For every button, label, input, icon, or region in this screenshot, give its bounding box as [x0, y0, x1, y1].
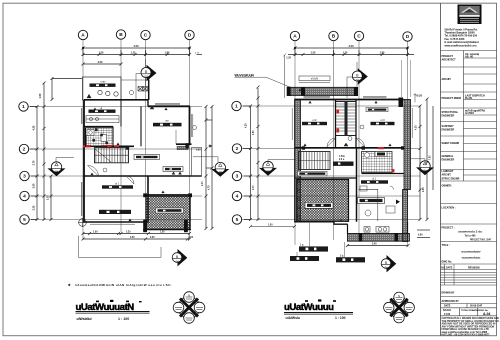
- svg-text:04: 04: [144, 75, 148, 79]
- grid line C: [145, 39, 147, 233]
- svg-text:2.50: 2.50: [98, 61, 103, 64]
- bay post 2: [395, 233, 399, 242]
- small label right of stairs: [163, 167, 183, 172]
- svg-text:ul 3: ul 3: [380, 118, 385, 122]
- column marker circle A5: [78, 218, 87, 227]
- svg-text:D: D: [406, 34, 410, 40]
- interior wall stair right: [355, 100, 357, 149]
- grid line D: [189, 39, 191, 240]
- section marker bottom B (right plan): [381, 255, 396, 272]
- svg-text:REVISION: REVISION: [468, 266, 480, 269]
- elevation marker left: [48, 158, 75, 177]
- svg-text:2.70: 2.70: [33, 160, 36, 165]
- bubble 5: [20, 215, 29, 224]
- svg-text:ARCHIT.: ARCHIT.: [442, 173, 452, 176]
- red marks on row2 wall: [83, 145, 89, 147]
- svg-text:B: B: [119, 32, 123, 38]
- svg-text:04: 04: [384, 265, 388, 269]
- svg-text:4: 4: [236, 194, 239, 200]
- svg-text:A: A: [81, 33, 85, 39]
- stair arrow red: [337, 110, 340, 114]
- tiny dim texts left plan: [48, 150, 211, 240]
- bottom leader label 1b: [290, 252, 319, 261]
- top dim line 1': [294, 47, 410, 50]
- left dim line 1': [249, 105, 252, 222]
- corner post terrace TR: [188, 193, 192, 197]
- bubble A: [78, 30, 87, 39]
- bath right wall: [112, 127, 114, 147]
- grid row 4': [240, 195, 420, 197]
- row3 wall: [84, 175, 202, 177]
- disclaimer block: [442, 317, 500, 337]
- deck right wall: [148, 80, 150, 101]
- bubble 3': [232, 171, 241, 180]
- top dimension line 1: [82, 47, 192, 50]
- terrace top wall: [145, 194, 191, 196]
- svg-text:STRUC ENGNR: STRUC ENGNR: [442, 178, 460, 181]
- bedroom bottom wall: [84, 221, 148, 223]
- company address lines: [445, 28, 480, 47]
- svg-text:TuA.u-498: TuA.u-498: [465, 235, 477, 238]
- svg-text:ul 1: ul 1: [115, 181, 120, 185]
- row2 wall right segment (living bottom): [176, 143, 192, 145]
- svg-text:B: B: [332, 34, 336, 40]
- svg-text:2.40: 2.40: [372, 243, 377, 246]
- svg-text:3: 3: [23, 174, 26, 180]
- svg-text:7.50: 7.50: [430, 155, 432, 160]
- bottom wall step: [334, 222, 348, 224]
- laundry fixtures: [87, 90, 118, 98]
- bubble C': [354, 31, 363, 40]
- svg-text:N: N: [188, 294, 190, 298]
- svg-text:ENGINEER: ENGINEER: [442, 114, 455, 117]
- right plan title: [284, 302, 353, 320]
- svg-text:uruwnendu 2 du: uruwnendu 2 du: [458, 230, 482, 234]
- svg-text:1.50: 1.50: [39, 93, 42, 98]
- top outer wall B-D: [148, 105, 190, 107]
- svg-text:DRAWN BY: DRAWN BY: [442, 292, 455, 295]
- grid row 2: [27, 148, 202, 150]
- red fixture marks bath: [86, 145, 91, 147]
- window lines right plan top wall: [292, 97, 412, 140]
- living room label box: [153, 119, 182, 127]
- balcony end post L: [287, 87, 291, 96]
- corridor wall posts: [302, 146, 305, 149]
- right title tone marks: [305, 299, 336, 301]
- corridor wall row2: [295, 147, 405, 149]
- upper terrace label text: [235, 73, 292, 87]
- top dim line 2': [288, 48, 414, 56]
- red marks right plan: [378, 147, 384, 149]
- column divider: [463, 51, 465, 182]
- left exterior hatched wall: [295, 100, 301, 223]
- small wall symbols left plan: [90, 108, 167, 222]
- svg-text:www.smallhousebuild.com: www.smallhousebuild.com: [445, 44, 478, 47]
- door arc bedroom: [126, 176, 134, 184]
- bubble B': [329, 31, 338, 40]
- main top wall: [295, 99, 404, 101]
- svg-text:DWG No.: DWG No.: [442, 261, 453, 264]
- row2 wall left segment: [84, 145, 134, 147]
- landing labels center: [333, 156, 354, 166]
- extra dim ticks left plan: [50, 53, 214, 241]
- grid line A': [294, 40, 296, 246]
- svg-text:PROJECT NO. 2547: PROJECT NO. 2547: [470, 239, 492, 242]
- svg-text:1.50: 1.50: [311, 52, 316, 55]
- svg-text:04: 04: [423, 168, 427, 172]
- grid row 3': [240, 175, 420, 177]
- triangle marks row3: [172, 172, 182, 175]
- svg-text:2: 2: [23, 147, 26, 153]
- porch arrow: [208, 145, 212, 148]
- svg-text:4.25: 4.25: [415, 125, 418, 130]
- svg-text:2 u.: 2 u.: [340, 255, 344, 257]
- corridor door arcs: [327, 137, 365, 147]
- bubble 3: [20, 171, 29, 180]
- laundry room outline: [83, 77, 122, 100]
- svg-text:5: 5: [23, 217, 26, 223]
- terrace bottom post R: [184, 220, 188, 233]
- svg-text:4: 4: [23, 194, 26, 200]
- bottom dim right plan: [249, 225, 296, 228]
- right dim line 1': [419, 105, 422, 222]
- bubble D': [403, 32, 412, 41]
- svg-text:TITLE :: TITLE :: [442, 244, 450, 247]
- right outer wall (living): [189, 106, 191, 144]
- svg-text:1: 1: [22, 104, 25, 110]
- section marker top (left plan): [136, 59, 157, 100]
- svg-text:1.50: 1.50: [268, 225, 273, 227]
- balcony end post R: [354, 87, 358, 96]
- svg-text:uuauwuduaiv: uuauwuduaiv: [461, 250, 480, 254]
- bay fixtures: [364, 227, 389, 233]
- dim end dots left plan: [82, 47, 191, 49]
- small wall symbols right plan: [298, 89, 391, 222]
- grid row 1': [240, 105, 420, 107]
- dim extension lines top right: [402, 60, 411, 97]
- bubble B: [116, 30, 125, 39]
- table grid lines: [441, 51, 497, 270]
- bottom leader label 1: [299, 223, 328, 252]
- wall step at B: [147, 100, 149, 106]
- svg-text:sIUuN: sIUuN: [311, 77, 319, 81]
- svg-text:4.50: 4.50: [130, 236, 135, 239]
- svg-text:1:100: 1:100: [444, 313, 451, 316]
- svg-text:WuVstsIUuN: WuVstsIUuN: [235, 73, 255, 77]
- svg-text:3: 3: [236, 174, 239, 180]
- svg-text:ENGINEER: ENGINEER: [442, 128, 455, 131]
- bubble 1: [19, 102, 28, 111]
- svg-text:uUatWuuuu: uUatWuuuu: [284, 302, 334, 313]
- living room left wall: [140, 106, 142, 146]
- svg-text:PROJECT :: PROJECT :: [442, 227, 455, 230]
- svg-text:N: N: [398, 294, 400, 298]
- title block left edge: [440, 3, 442, 336]
- svg-text:PLAN.: PLAN.: [465, 97, 473, 100]
- svg-text:2.00: 2.00: [202, 181, 204, 186]
- svg-text:uIWsIdIui: uIWsIdIui: [77, 317, 92, 321]
- grid row 3: [28, 175, 202, 177]
- svg-text:2.35: 2.35: [33, 205, 36, 210]
- right column sub lines: [464, 58, 497, 175]
- circle symbol right of stair: [360, 125, 364, 129]
- open deck right of laundry: [121, 80, 148, 95]
- svg-text:AB. 4D: AB. 4D: [465, 56, 473, 59]
- bottom wall right plan: [295, 221, 335, 223]
- svg-text:OWNER :: OWNER :: [442, 185, 453, 188]
- svg-text:5: 5: [236, 217, 239, 223]
- elevation marker right (right plan): [411, 159, 434, 175]
- bottom leader label 2: [336, 242, 365, 262]
- svg-text:4.50: 4.50: [348, 44, 354, 48]
- bubble 2': [232, 144, 241, 153]
- svg-text:nAuwAauIGAtIMIAuIN uIAN InAIgn: nAuwAauIGAtIMIAuIN uIAN InAIgnnInW uau n…: [75, 283, 172, 287]
- svg-text:2.70: 2.70: [253, 185, 255, 190]
- svg-text:2.25: 2.25: [126, 232, 131, 234]
- svg-text:LOCATION :: LOCATION :: [442, 207, 456, 210]
- stairs: [95, 148, 129, 163]
- bubble 1': [232, 101, 241, 110]
- svg-text:A: A: [293, 34, 297, 40]
- left title tone marks: [96, 300, 142, 303]
- right bay hatched wall: [403, 190, 408, 242]
- terrace right wall: [189, 195, 191, 230]
- svg-text:1.50: 1.50: [160, 232, 165, 234]
- section marker bottom B: [172, 249, 187, 266]
- svg-text:untv: untv: [101, 80, 107, 84]
- svg-text:4.75: 4.75: [208, 185, 211, 190]
- bedroom2 label box: [302, 118, 327, 125]
- svg-text:1: 1: [235, 104, 238, 110]
- door sill hatch living: [177, 146, 188, 150]
- grid line B': [333, 40, 335, 241]
- stairs right post: [126, 147, 129, 150]
- svg-text:uIAIWsIu: uIAIWsIu: [286, 316, 301, 320]
- terrace crosshatch: [146, 196, 190, 229]
- hall label: [134, 155, 160, 160]
- svg-text:C: C: [357, 34, 361, 40]
- grid line A: [82, 39, 84, 240]
- svg-text:04: 04: [175, 259, 179, 263]
- svg-text:PROJECT MNGR: PROJECT MNGR: [442, 97, 462, 100]
- stair label band: [298, 171, 328, 176]
- bay hatched band: [347, 233, 409, 241]
- grid line C': [358, 40, 360, 241]
- svg-text:C: C: [144, 33, 148, 39]
- svg-text:AI 2594: AI 2594: [465, 112, 474, 115]
- svg-text:1 : 100: 1 : 100: [118, 317, 129, 321]
- svg-text:DATE: DATE: [446, 266, 453, 269]
- left plan title: [76, 302, 150, 321]
- svg-text:ul 1: ul 1: [372, 177, 377, 180]
- grid line D': [407, 40, 409, 246]
- left column labels: [442, 55, 462, 264]
- terrace label: [156, 208, 184, 213]
- svg-text:0.90: 0.90: [196, 150, 201, 152]
- drawn by / approved by: [441, 297, 497, 316]
- wall between bed1 and bath: [356, 148, 358, 222]
- svg-text:❋: ❋: [68, 283, 71, 287]
- bubble 4: [20, 191, 29, 200]
- right inter-plan dim line 2: [211, 105, 214, 230]
- elevation marker left (right plan): [259, 160, 296, 176]
- bubble 2: [19, 144, 28, 153]
- bubble 4': [232, 191, 241, 200]
- tiled bathroom: [86, 128, 114, 147]
- tiny dim texts right plan: [245, 123, 432, 246]
- bubble C: [141, 30, 150, 39]
- bedroom2 label box: [99, 210, 131, 214]
- right column contents: [465, 53, 485, 115]
- master bedroom label box: [305, 202, 333, 208]
- svg-text:ul 2: ul 2: [312, 118, 317, 122]
- grid row 1: [27, 106, 202, 108]
- svg-text:APPROVED BY: APPROVED BY: [442, 300, 460, 303]
- svg-text:A-04: A-04: [483, 312, 490, 316]
- title names: [461, 250, 480, 260]
- svg-text:2.35: 2.35: [423, 187, 425, 192]
- dressing label box: [366, 108, 388, 112]
- left outer wall: [83, 100, 85, 223]
- svg-text:utn: utn: [165, 119, 169, 123]
- svg-text:SCALE: SCALE: [443, 309, 452, 312]
- balcony hatched wall band: [288, 87, 357, 95]
- bottom dim line 1: [82, 232, 192, 235]
- svg-text:04: 04: [356, 78, 360, 82]
- svg-text:4.50: 4.50: [133, 44, 139, 48]
- left dim line 2': [243, 86, 260, 222]
- svg-text:2.00: 2.00: [33, 183, 36, 188]
- bottom dim line 2: [82, 238, 192, 241]
- door arc under stairs: [88, 166, 108, 177]
- svg-text:2.0 u: 2.0 u: [339, 159, 345, 161]
- left dimension line 2: [30, 82, 46, 222]
- interior wall bedroom2: [335, 100, 337, 149]
- svg-text:uuauwuduuu: uuauwuduuu: [462, 256, 481, 260]
- right dim line 2': [426, 98, 434, 222]
- svg-text:04: 04: [55, 169, 59, 173]
- lower stair: [299, 152, 331, 170]
- bath door arrow: [396, 200, 400, 205]
- right exterior hatched wall: [404, 100, 411, 190]
- bedroom3 label box: [371, 118, 395, 125]
- svg-text:04: 04: [266, 169, 270, 173]
- svg-text:SHEET ENGNR: SHEET ENGNR: [442, 142, 460, 145]
- project name: [458, 230, 492, 242]
- extra ticks right plan: [257, 53, 431, 247]
- grid row 4: [28, 195, 202, 197]
- terrace bottom wall: [143, 229, 191, 231]
- revision table: [441, 264, 497, 285]
- section marker top (right plan): [347, 62, 368, 98]
- grid line B: [120, 38, 122, 232]
- top dimension line 2: [82, 48, 203, 56]
- bathroom fixtures: [360, 186, 395, 216]
- dim end dots right plan: [294, 47, 409, 49]
- chimney symbols: [138, 87, 148, 92]
- grid row 5': [240, 219, 420, 221]
- svg-text:0.90: 0.90: [418, 235, 423, 237]
- bathroom label box: [358, 198, 385, 204]
- balcony label box: [299, 76, 330, 83]
- svg-text:DATE: DATE: [444, 305, 451, 308]
- svg-text:D: D: [188, 33, 192, 39]
- left compass rose: [173, 292, 205, 324]
- +0.20 text: [399, 98, 404, 108]
- bath divider wall: [362, 173, 405, 175]
- svg-text:TOTAL DRAWING: TOTAL DRAWING: [461, 309, 480, 312]
- elevation marker right: [193, 157, 229, 177]
- bay post 1: [359, 233, 363, 242]
- bubble D: [185, 30, 194, 39]
- kitchen counter: [86, 116, 119, 123]
- hatched room top wall: [295, 177, 357, 179]
- right wall window lines: [192, 114, 197, 137]
- svg-text:1.50: 1.50: [93, 232, 98, 234]
- svg-text:1.50x: 1.50x: [339, 156, 345, 158]
- wall B vertical: [120, 100, 122, 127]
- kitchen window left: [81, 108, 83, 124]
- porch right of living: [192, 148, 202, 177]
- kitchen label box: [89, 106, 116, 113]
- bath dark tiles: [92, 129, 108, 145]
- bubble A': [290, 31, 299, 40]
- svg-text:ARCHITECT: ARCHITECT: [442, 58, 457, 61]
- stair core: [336, 102, 357, 136]
- bedroom sill line: [90, 223, 135, 225]
- shower cubicle: [359, 189, 378, 221]
- bedroom right wall: [147, 176, 149, 223]
- svg-text:4.25: 4.25: [33, 125, 36, 130]
- svg-text:1 : 100: 1 : 100: [335, 316, 346, 320]
- right compass rose: [384, 292, 415, 323]
- svg-text:ARCHIT.: ARCHIT.: [442, 78, 452, 81]
- svg-text:2: 2: [236, 146, 239, 152]
- svg-text:04: 04: [219, 170, 223, 174]
- svg-text:4.25: 4.25: [245, 123, 248, 128]
- svg-text:30-09-2547: 30-09-2547: [470, 305, 483, 308]
- laundry dim line: [51, 63, 123, 102]
- bay side walls: [348, 222, 408, 233]
- left wall window lines: [82, 135, 87, 216]
- top outer wall A-B: [84, 99, 121, 101]
- svg-text:HOTLINE : 08-1234-5678 FAX 0-2: HOTLINE : 08-1234-5678 FAX 0-2888-4877: [442, 334, 491, 337]
- note text: [68, 283, 172, 287]
- master bedroom crosshatch: [297, 180, 349, 222]
- company logo: [458, 5, 482, 25]
- WIC label: [361, 177, 388, 183]
- window lines on top wall: [150, 104, 180, 109]
- upper bath tiles: [362, 152, 393, 173]
- right inter-plan dim line 1: [205, 105, 208, 230]
- bubble 5': [232, 215, 241, 224]
- laundry label box: [90, 80, 116, 87]
- corner post terrace TL: [143, 193, 147, 197]
- svg-text:1.20: 1.20: [286, 57, 291, 60]
- living bottom post: [186, 143, 189, 148]
- grid row 5: [28, 219, 202, 221]
- svg-text:1 u.: 1 u.: [300, 245, 304, 247]
- svg-text:1.00: 1.00: [48, 195, 50, 200]
- living porch jamb: [175, 130, 177, 144]
- grid row 2': [240, 148, 420, 150]
- left dimension line 1: [36, 105, 39, 221]
- terrace bottom post L: [143, 220, 147, 233]
- svg-text:+0.20: +0.20: [416, 93, 423, 97]
- bedroom1 label box: [102, 181, 133, 188]
- overhang line + 1.20 dim: [283, 54, 286, 99]
- kitchen divider wall: [84, 126, 113, 128]
